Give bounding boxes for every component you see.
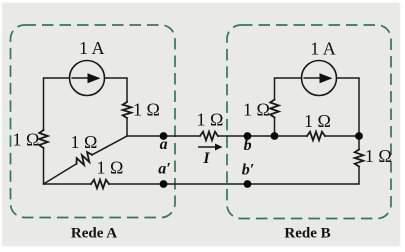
resistor R7 (B horizontal) <box>307 132 325 141</box>
resistor R2 (A right vertical) <box>123 102 132 118</box>
svg-text:1 A: 1 A <box>310 39 336 59</box>
svg-text:I: I <box>202 150 210 167</box>
wire: A left rail lower <box>43 148 45 184</box>
dashed box Rede A <box>11 25 176 218</box>
svg-text:1 Ω: 1 Ω <box>13 130 40 150</box>
wire: A top-right from source down right rail <box>105 78 128 102</box>
wire: B left rail lower <box>274 118 276 137</box>
wire: B right rail upper <box>337 78 360 150</box>
wire: B node row junction to right rail <box>275 135 308 137</box>
junction B left <box>271 132 279 140</box>
svg-text:1 Ω: 1 Ω <box>304 111 331 131</box>
svg-text:b′: b′ <box>242 162 255 179</box>
svg-text:1 Ω: 1 Ω <box>133 100 160 120</box>
resistor R3 (A diagonal) <box>77 152 93 165</box>
wire: mid resistor to node b to B junction <box>218 135 275 137</box>
svg-text:Rede B: Rede B <box>284 226 330 242</box>
wire: B left rail upper to source <box>275 78 302 100</box>
svg-text:a: a <box>160 136 168 153</box>
junction B right <box>355 132 363 140</box>
wire: bottom rail left <box>44 183 92 185</box>
svg-text:b: b <box>244 137 252 154</box>
resistor R6 (B left vertical) <box>270 100 279 118</box>
wire: diagonal upper segment <box>92 136 127 155</box>
resistor R8 (B right vertical) <box>355 150 364 167</box>
svg-text:1 Ω: 1 Ω <box>97 158 124 178</box>
svg-text:Rede A: Rede A <box>71 226 117 242</box>
arrow I (current direction) <box>198 144 223 151</box>
current source I2 (Rede B) <box>302 61 337 96</box>
current source I1 (Rede A) <box>70 61 105 96</box>
svg-text:1 A: 1 A <box>79 38 105 58</box>
wire: A top-left from source to left rail <box>44 78 70 130</box>
wire: junction to node a to mid resistor <box>127 135 200 137</box>
svg-text:1 Ω: 1 Ω <box>243 100 270 120</box>
wire: right rail to node row <box>126 118 128 136</box>
resistor R4 (A bottom horizontal) <box>91 180 109 189</box>
svg-text:1 Ω: 1 Ω <box>365 146 392 166</box>
node a <box>160 132 168 140</box>
node a' <box>160 180 168 188</box>
wire: B horizontal resistor to right junction <box>325 135 359 137</box>
svg-text:1 Ω: 1 Ω <box>71 132 98 152</box>
resistor R5 (middle, between a and b) <box>200 132 218 141</box>
resistor R1 (A left vertical) <box>39 130 48 148</box>
node b <box>244 132 252 140</box>
wire: diagonal lower segment <box>44 164 77 184</box>
dashed box Rede B <box>227 25 391 219</box>
svg-text:a′: a′ <box>158 161 171 178</box>
svg-text:1 Ω: 1 Ω <box>197 110 224 130</box>
wire: bottom rail from resistor through a' and b' to B right rail <box>109 167 359 185</box>
node b' <box>244 180 252 188</box>
